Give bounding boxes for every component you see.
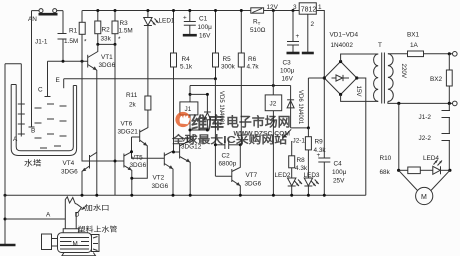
svg-text:R4: R4 [182, 56, 191, 63]
svg-text:R6: R6 [248, 56, 257, 63]
svg-text:2: 2 [311, 21, 315, 28]
svg-text:300k: 300k [221, 64, 236, 71]
node unregulated + to R9 [291, 78, 309, 128]
resistor R2 [95, 11, 112, 45]
wire VT6 emitter to VT5 emitter [132, 146, 148, 179]
ground under C3 [287, 52, 300, 55]
svg-text:4.7k: 4.7k [247, 64, 260, 71]
svg-text:M: M [421, 194, 427, 201]
transistor VT4 [61, 152, 97, 175]
resistor R5 [213, 11, 236, 80]
relay coil J2 [265, 86, 282, 196]
capacitor C1 [183, 11, 212, 40]
svg-text:LED2: LED2 [275, 172, 291, 179]
pushbutton AN [28, 9, 63, 23]
wire bridge minus to ground rail [357, 78, 366, 195]
svg-text:R5: R5 [223, 56, 232, 63]
svg-text:VD1~VD4: VD1~VD4 [330, 32, 359, 39]
svg-text:3DG6: 3DG6 [99, 62, 116, 69]
svg-text:VT2: VT2 [153, 175, 165, 182]
wire VT5 collector to VT6 base / VT2 base [132, 137, 165, 158]
svg-text:维库: 维库 [191, 113, 225, 133]
water tank [11, 85, 76, 168]
transformer T [355, 42, 407, 104]
wire VT7 emitter to rail [239, 186, 241, 196]
relay contact J1-1 [35, 11, 67, 62]
wire bridge AC bottom to secondary [341, 95, 379, 102]
svg-text:J1-1: J1-1 [35, 39, 48, 46]
resistor R9 [305, 128, 326, 178]
resistor R1 [64, 11, 87, 62]
wire VT1 emitter column [96, 70, 98, 195]
svg-text:+: + [317, 152, 321, 159]
svg-text:VT4: VT4 [63, 160, 75, 167]
resistor R6 [238, 11, 259, 145]
logo [175, 112, 190, 127]
svg-text:水塔: 水塔 [24, 158, 42, 168]
ground rail bottom [5, 194, 366, 196]
svg-text:全球最大IC采购网站: 全球最大IC采购网站 [171, 133, 288, 146]
wire VT3 emitter to rail [189, 162, 191, 195]
svg-text:VD6 1N4001: VD6 1N4001 [297, 90, 303, 125]
svg-text:R1: R1 [69, 28, 78, 35]
svg-text:+: + [296, 33, 300, 40]
svg-text:16V: 16V [282, 76, 294, 83]
wire 12V column [272, 11, 274, 86]
capacitor C3 [280, 11, 300, 83]
wire electrode B drop from AN [29, 11, 35, 127]
svg-text:R2: R2 [102, 27, 111, 34]
svg-text:+: + [183, 15, 187, 22]
wire top +12V rail [82, 10, 299, 12]
pipe collar [63, 229, 78, 233]
wire bridge AC top to secondary [341, 54, 379, 62]
svg-text:100μ: 100μ [332, 169, 347, 176]
svg-text:加水口: 加水口 [85, 203, 110, 212]
LED LED2 [275, 172, 303, 195]
svg-text:VT1: VT1 [101, 54, 113, 61]
svg-text:R8: R8 [297, 157, 306, 164]
svg-text:BX1: BX1 [407, 32, 420, 39]
terminal plug bottom [453, 101, 458, 106]
wire VT6 base [132, 136, 140, 138]
wire VT4 emitter to rail [81, 171, 83, 195]
svg-text:T: T [378, 42, 382, 49]
motor M pump [399, 170, 450, 204]
svg-text:3DG6: 3DG6 [245, 181, 262, 188]
svg-text:R3: R3 [120, 20, 129, 27]
transistor VT6 [118, 110, 148, 146]
WATERMARK [171, 112, 291, 146]
svg-text:A: A [46, 212, 51, 219]
wire LED1 to R11 [147, 26, 149, 97]
svg-text:25V: 25V [333, 178, 345, 185]
svg-text:M: M [73, 240, 78, 247]
node bridge plus [308, 77, 324, 79]
capacitor C4 [317, 78, 347, 195]
transistor VT5 [124, 152, 147, 171]
transistor VT7 [215, 145, 261, 188]
wire 7812 pin1 to bridge + [316, 11, 324, 79]
svg-text:C4: C4 [334, 161, 343, 168]
LED LED4 [423, 155, 450, 174]
resistor R3 [112, 11, 133, 45]
svg-text:100μ: 100μ [198, 24, 213, 31]
svg-text:220V: 220V [400, 64, 407, 79]
svg-text:3DG6: 3DG6 [61, 169, 78, 176]
fuse BX2 [430, 54, 452, 104]
svg-text:电子市场网: 电子市场网 [226, 115, 291, 130]
svg-text:C1: C1 [199, 16, 208, 23]
ground under 7812 [302, 52, 314, 55]
diode VD6 [287, 86, 303, 128]
relay contact J2-2 [419, 134, 451, 171]
svg-text:B: B [31, 128, 35, 135]
transistor VT2 [152, 151, 174, 190]
resistor R10 [380, 155, 433, 176]
svg-text:100μ: 100μ [280, 68, 295, 75]
svg-text:LED1: LED1 [159, 18, 175, 25]
svg-text:68k: 68k [380, 169, 391, 176]
svg-text:2k: 2k [129, 102, 137, 109]
terminal plug top [453, 52, 458, 57]
svg-text:LED4: LED4 [423, 155, 439, 162]
svg-text:R10: R10 [380, 155, 392, 162]
wire left edge column [5, 64, 21, 244]
svg-text:D: D [75, 212, 80, 219]
svg-text:1.5M: 1.5M [119, 28, 133, 35]
svg-text:R9: R9 [315, 139, 324, 146]
relay coil J1 [180, 86, 208, 131]
svg-text:J1-2: J1-2 [419, 114, 432, 121]
svg-text:C: C [38, 87, 43, 94]
svg-text:VT7: VT7 [246, 172, 258, 179]
svg-text:E: E [56, 77, 60, 84]
bridge rectifier VD1~VD4 [323, 32, 359, 97]
node base wire of VT1 [48, 60, 88, 62]
node J1 bottom / VT3 collector [190, 129, 207, 131]
wire electrode E [63, 79, 65, 88]
node E sense line [64, 78, 216, 80]
wire E/R5 node down to VT7 base [214, 79, 216, 176]
svg-text:J2: J2 [270, 101, 277, 108]
thermistor RT 510ohm [250, 8, 266, 34]
wire VT2 emitter to rail [172, 169, 174, 196]
water inlet funnel [65, 197, 109, 229]
svg-text:5.1k: 5.1k [180, 64, 193, 71]
svg-text:C3: C3 [283, 60, 292, 67]
resistor R4 [171, 11, 193, 153]
svg-text:J1: J1 [185, 106, 192, 113]
svg-text:1N4002: 1N4002 [331, 42, 354, 49]
svg-text:AN: AN [28, 16, 37, 23]
LED LED1 [144, 11, 175, 26]
svg-text:3DG21: 3DG21 [118, 129, 139, 136]
svg-text:510Ω: 510Ω [250, 27, 266, 34]
svg-text:R11: R11 [126, 92, 138, 99]
svg-text:3DG6: 3DG6 [152, 183, 169, 190]
wire 7812 pin2 [307, 14, 309, 52]
relay contact J1-2 [419, 103, 451, 133]
svg-text:1A: 1A [410, 42, 419, 49]
wire primary bottom [388, 102, 452, 104]
svg-text:15V: 15V [355, 86, 362, 98]
svg-text:6800p: 6800p [219, 161, 237, 168]
svg-text:塑料上水管: 塑料上水管 [78, 224, 118, 233]
svg-text:7812: 7812 [301, 6, 317, 13]
wire R3 column down to VT5 base [114, 44, 116, 195]
pump motor body [42, 233, 100, 256]
svg-text:3DG6: 3DG6 [130, 162, 147, 169]
svg-text:1.5M: 1.5M [64, 38, 78, 45]
electrode A [13, 64, 25, 143]
capacitor C2 [215, 141, 240, 168]
wire suction pipe line [5, 218, 65, 220]
resistor R8 [289, 141, 308, 178]
relay contact J2-1 [283, 129, 305, 144]
wire electrode C [45, 61, 51, 96]
svg-text:33k: 33k [101, 36, 112, 43]
svg-text:BX2: BX2 [430, 76, 443, 83]
svg-text:J2-1: J2-1 [293, 138, 306, 145]
transistor VT3 [180, 130, 202, 162]
node 12V feed line to relay coils [190, 85, 291, 87]
regulator U1 7812 [293, 3, 322, 28]
svg-text:C2: C2 [222, 153, 231, 160]
transistor VT1 [88, 44, 116, 70]
node VT1 collector [98, 43, 115, 45]
fuse BX1 [388, 32, 452, 57]
ground [0, 244, 16, 247]
svg-text:4.3k: 4.3k [295, 165, 308, 172]
wire motor feed left [398, 103, 400, 170]
svg-text:A: A [13, 136, 18, 143]
wire VT2 collector node to VT3 base [174, 151, 180, 153]
diode VD5 [204, 91, 224, 130]
svg-text:1: 1 [318, 4, 322, 11]
svg-text:LED3: LED3 [304, 172, 320, 179]
svg-text:VT6: VT6 [121, 121, 133, 128]
water level dashes [35, 104, 67, 148]
wire VT5 emitter to rail [131, 170, 133, 195]
svg-text:16V: 16V [199, 33, 211, 40]
LED LED3 [304, 172, 320, 195]
svg-text:J2-2: J2-2 [419, 135, 432, 142]
wire VT1 base node down to VT4 base [82, 61, 124, 161]
resistor R11 [126, 92, 151, 110]
